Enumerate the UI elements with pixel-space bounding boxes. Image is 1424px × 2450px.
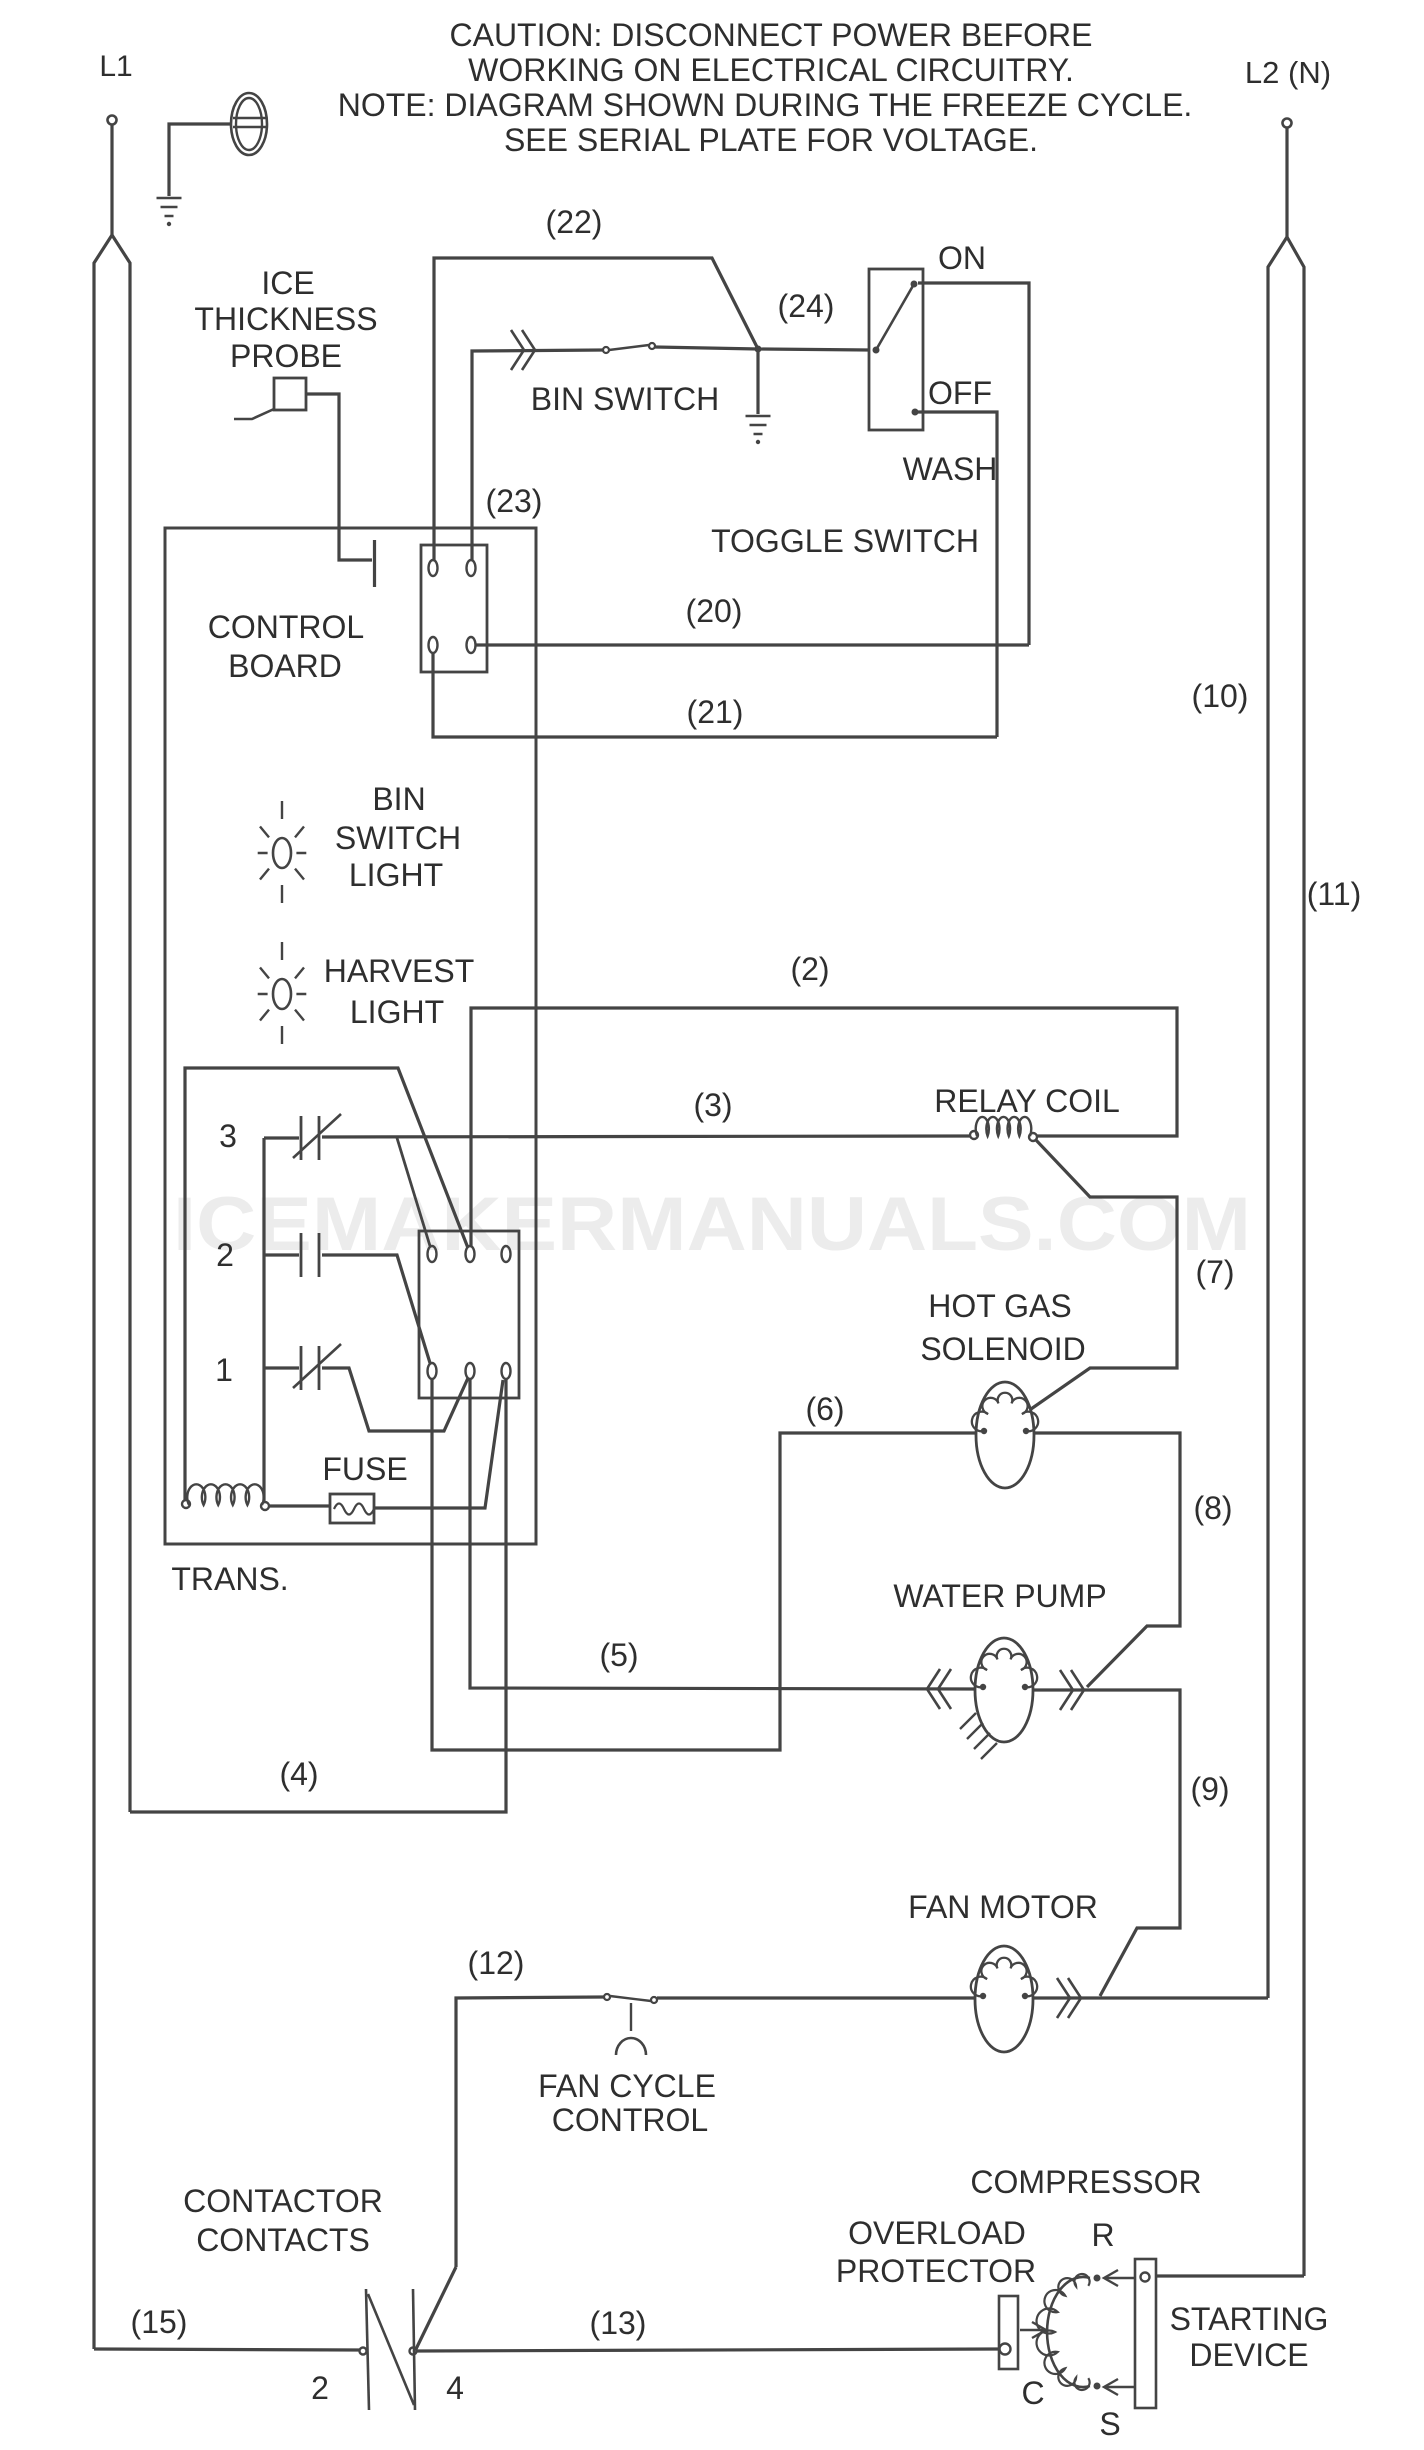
wire 3 contact 3 to relay coil xyxy=(322,1136,970,1137)
receptacle inner ellipse xyxy=(236,98,262,150)
svg-text:HARVEST: HARVEST xyxy=(324,953,475,989)
fan cycle control blade xyxy=(610,1996,651,2001)
wire 20 xyxy=(476,643,1029,646)
svg-text:(13): (13) xyxy=(590,2305,647,2341)
wire coil to fuse xyxy=(269,1504,330,1507)
6-pin connector on control board xyxy=(419,1231,519,1398)
svg-text:(2): (2) xyxy=(790,951,829,987)
wire contact 1 to pin 5 xyxy=(322,1368,468,1431)
connector pin bottom row xyxy=(466,1363,475,1379)
L1 terminal xyxy=(108,116,117,125)
svg-text:(22): (22) xyxy=(546,204,603,240)
water pump winding xyxy=(971,1649,1037,1688)
svg-text:FAN CYCLE: FAN CYCLE xyxy=(538,2068,716,2104)
wire 2 xyxy=(471,1008,1177,1246)
wire fuse to pin 6 xyxy=(374,1380,503,1508)
wire 12 riser diagonal to contactor xyxy=(416,2267,456,2349)
L2 terminal xyxy=(1283,119,1292,128)
plug chevrons left of water pump xyxy=(938,1669,951,1709)
svg-text:SWITCH: SWITCH xyxy=(335,820,461,856)
toggle OFF pin xyxy=(912,409,919,416)
wire 21 xyxy=(433,653,997,737)
hot gas solenoid body xyxy=(976,1382,1034,1488)
svg-text:(20): (20) xyxy=(686,593,743,629)
connector pin xyxy=(429,637,438,653)
connector pin top row xyxy=(502,1246,511,1262)
svg-text:(6): (6) xyxy=(805,1391,844,1427)
contact 3 (NC) xyxy=(301,1116,319,1160)
svg-text:WATER PUMP: WATER PUMP xyxy=(893,1578,1106,1614)
svg-text:(11): (11) xyxy=(1307,876,1362,912)
wire OFF/WASH to (21) xyxy=(918,412,997,737)
svg-text:ON: ON xyxy=(938,240,986,276)
bin switch contact right xyxy=(649,343,655,349)
svg-text:S: S xyxy=(1099,2406,1120,2442)
probe input bar on control board xyxy=(373,540,376,587)
wire fan motor to L2 xyxy=(1033,1996,1268,1999)
wire 9 water pump to fan plug xyxy=(1033,1690,1180,1996)
wire 23 riser and bin switch wire xyxy=(472,350,603,560)
compressor S terminal xyxy=(1094,2383,1101,2390)
wire to ground at bin switch xyxy=(756,352,759,414)
wire L1 left lead down to contactor xyxy=(94,235,112,2349)
svg-text:(5): (5) xyxy=(599,1637,638,1673)
fan cycle control bulb xyxy=(616,2038,646,2055)
wire 11 to starting device xyxy=(1156,2274,1304,2277)
wire 6 pin4 to hot gas solenoid xyxy=(432,1379,976,1750)
wire L2 stem xyxy=(1285,128,1288,237)
connector pin xyxy=(467,560,476,576)
transformer primary coil xyxy=(182,1500,190,1508)
svg-text:WASH: WASH xyxy=(903,451,998,487)
fan motor winding xyxy=(971,1958,1037,1997)
bin switch blade xyxy=(609,345,649,350)
bin switch light xyxy=(273,838,291,868)
svg-text:(24): (24) xyxy=(778,288,835,324)
fuse element xyxy=(334,1504,374,1515)
svg-text:COMPRESSOR: COMPRESSOR xyxy=(970,2164,1201,2200)
svg-text:LIGHT: LIGHT xyxy=(350,994,444,1030)
contactor contact right terminal xyxy=(410,2348,417,2355)
fan cycle control contact right xyxy=(651,1997,657,2003)
wire transformer primary to pin, with diagonal xyxy=(185,1068,468,1500)
svg-text:L1: L1 xyxy=(99,50,132,83)
svg-text:TRANS.: TRANS. xyxy=(171,1561,288,1597)
connector pin bottom row xyxy=(428,1363,437,1379)
svg-text:SOLENOID: SOLENOID xyxy=(920,1331,1085,1367)
water pump case ground hatch xyxy=(960,1713,997,1759)
wire to ground receptacle xyxy=(169,124,231,196)
connector pin top row xyxy=(466,1246,475,1262)
svg-text:FUSE: FUSE xyxy=(322,1451,407,1487)
svg-text:(8): (8) xyxy=(1193,1490,1232,1526)
wire 4 pin6 down to L1 xyxy=(130,1379,506,1812)
receptacle slots xyxy=(233,118,266,127)
svg-text:SEE SERIAL PLATE FOR VOLTAGE.: SEE SERIAL PLATE FOR VOLTAGE. xyxy=(504,122,1038,158)
wire probe to control board xyxy=(306,394,372,560)
relay coil xyxy=(970,1131,978,1139)
fuse body xyxy=(330,1494,374,1523)
svg-text:PROTECTOR: PROTECTOR xyxy=(836,2253,1036,2289)
svg-text:(9): (9) xyxy=(1190,1771,1229,1807)
contactor blade left xyxy=(366,2289,369,2410)
control board outline xyxy=(165,528,536,1544)
fan motor body xyxy=(975,1946,1033,2052)
svg-text:(3): (3) xyxy=(693,1087,732,1123)
water pump body xyxy=(975,1638,1033,1742)
svg-text:(4): (4) xyxy=(279,1756,318,1792)
wire 12 riser and left segment xyxy=(456,1997,604,2267)
connector pin top row xyxy=(428,1246,437,1262)
overload protector body xyxy=(999,2296,1018,2369)
svg-text:FAN MOTOR: FAN MOTOR xyxy=(908,1889,1098,1925)
wire contact 2 to pin 4 xyxy=(322,1255,430,1363)
wire 8 solenoid to pump plug xyxy=(1034,1433,1180,1687)
svg-text:TOGGLE SWITCH: TOGGLE SWITCH xyxy=(711,523,979,559)
svg-text:(21): (21) xyxy=(687,694,744,730)
contactor blade right xyxy=(413,2289,415,2410)
svg-text:THICKNESS: THICKNESS xyxy=(194,301,377,337)
arrow overload to compressor C xyxy=(1020,2329,1046,2331)
svg-text:CAUTION: DISCONNECT POWER BEFO: CAUTION: DISCONNECT POWER BEFORE xyxy=(449,17,1092,53)
svg-text:L2 (N): L2 (N) xyxy=(1245,55,1331,90)
svg-text:ICE: ICE xyxy=(261,265,314,301)
svg-text:RELAY COIL: RELAY COIL xyxy=(934,1083,1120,1119)
svg-text:BIN: BIN xyxy=(372,781,425,817)
svg-text:DEVICE: DEVICE xyxy=(1189,2337,1308,2373)
arrow starting device to R xyxy=(1104,2277,1134,2279)
svg-text:CONTACTS: CONTACTS xyxy=(196,2222,370,2258)
wire bus to contact 1 xyxy=(264,1366,299,1369)
probe contact blade xyxy=(234,409,274,419)
contact 1 (NC) xyxy=(301,1346,319,1390)
wire L1 stem xyxy=(110,125,113,235)
svg-text:WORKING ON ELECTRICAL CIRCUITR: WORKING ON ELECTRICAL CIRCUITRY. xyxy=(468,52,1074,88)
svg-text:STARTING: STARTING xyxy=(1170,2301,1329,2337)
svg-text:2: 2 xyxy=(311,2370,329,2406)
connector chevrons on bin switch wire xyxy=(511,330,524,370)
compressor motor winding xyxy=(1047,2277,1090,2387)
starting device body xyxy=(1135,2259,1156,2408)
connector pin bottom row xyxy=(502,1363,511,1379)
svg-text:LIGHT: LIGHT xyxy=(349,857,443,893)
ice thickness probe body xyxy=(274,378,306,410)
wire 15 xyxy=(94,2349,360,2350)
contactor crossing blade xyxy=(368,2294,414,2405)
svg-text:(10): (10) xyxy=(1192,678,1249,714)
bin switch contact left xyxy=(603,347,609,353)
toggle ON pin xyxy=(911,281,918,288)
receptacle outer ellipse xyxy=(231,93,267,155)
wire 12 to fan motor xyxy=(657,1996,976,1999)
ground symbol at receptacle xyxy=(157,198,182,216)
fan cycle control contact left xyxy=(604,1994,610,2000)
compressor R terminal xyxy=(1094,2275,1101,2282)
plug chevrons right of water pump xyxy=(1060,1670,1073,1710)
toggle common pin xyxy=(873,347,880,354)
plug chevrons right of fan motor xyxy=(1057,1978,1070,2018)
wire bin switch to toggle common xyxy=(655,347,869,350)
svg-text:(7): (7) xyxy=(1195,1254,1234,1290)
wire 22 loop xyxy=(434,258,758,560)
svg-text:PROBE: PROBE xyxy=(230,338,342,374)
svg-text:C: C xyxy=(1021,2375,1044,2411)
contactor contact left terminal xyxy=(360,2348,367,2355)
wire 5 pin5 to water pump xyxy=(470,1379,975,1689)
wire 13 xyxy=(417,2349,999,2351)
contact common bus xyxy=(262,1138,265,1503)
wire ON to (20) xyxy=(918,283,1029,645)
4-pin connector on control board xyxy=(421,545,487,672)
svg-text:(12): (12) xyxy=(468,1945,525,1981)
svg-text:CONTACTOR: CONTACTOR xyxy=(183,2183,383,2219)
svg-text:HOT GAS: HOT GAS xyxy=(928,1288,1071,1324)
overload terminal xyxy=(1000,2344,1011,2355)
wire contact 3 to pin 1 xyxy=(397,1138,430,1246)
wire 10 L2 left lead down to fan circuit xyxy=(1268,237,1287,1998)
svg-text:2: 2 xyxy=(216,1237,234,1273)
svg-text:R: R xyxy=(1091,2217,1114,2253)
connector pin xyxy=(429,560,438,576)
svg-text:OFF: OFF xyxy=(928,375,992,411)
junction at toggle common feed xyxy=(755,346,762,353)
contact 2 (NO) xyxy=(301,1233,319,1277)
svg-text:1: 1 xyxy=(215,1352,233,1388)
svg-text:(15): (15) xyxy=(131,2304,188,2340)
wire bus to contact 3 xyxy=(264,1136,299,1139)
svg-text:CONTROL: CONTROL xyxy=(552,2102,708,2138)
arrow starting device to S xyxy=(1104,2386,1134,2388)
wire 7 relay junction to solenoid xyxy=(1031,1139,1177,1409)
svg-text:BOARD: BOARD xyxy=(228,648,342,684)
svg-text:CONTROL: CONTROL xyxy=(208,609,364,645)
svg-text:3: 3 xyxy=(219,1118,237,1154)
connector pin xyxy=(467,637,476,653)
svg-text:NOTE: DIAGRAM SHOWN DURING THE: NOTE: DIAGRAM SHOWN DURING THE FREEZE CY… xyxy=(338,87,1193,123)
starting device terminal xyxy=(1141,2273,1150,2282)
svg-text:(23): (23) xyxy=(486,483,543,519)
toggle switch body xyxy=(869,269,923,430)
toggle blade xyxy=(876,284,914,350)
wire L1 right lead down to wire 4 xyxy=(112,235,130,1812)
wire 11 L2 right lead xyxy=(1287,237,1304,2276)
ground symbol below bin switch junction xyxy=(746,416,771,434)
svg-text:BIN SWITCH: BIN SWITCH xyxy=(531,381,719,417)
svg-text:4: 4 xyxy=(446,2370,464,2406)
hot gas solenoid winding xyxy=(972,1393,1038,1432)
fan cycle control stem xyxy=(630,2003,632,2031)
svg-text:OVERLOAD: OVERLOAD xyxy=(848,2215,1026,2251)
wire bus to contact 2 xyxy=(264,1253,299,1256)
harvest light xyxy=(273,979,291,1009)
